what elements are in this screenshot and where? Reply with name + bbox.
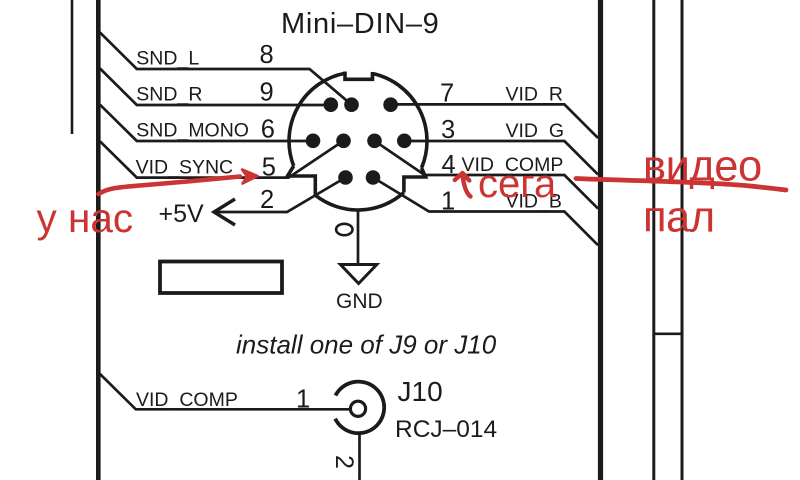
pin 5 dot [336, 134, 351, 149]
svg-text:у нас: у нас [37, 195, 134, 241]
pin 4 dot [367, 134, 382, 149]
svg-text:9: 9 [260, 78, 274, 106]
connector body right notch [404, 168, 426, 193]
pin number 3 [441, 116, 455, 144]
svg-text:J10: J10 [398, 376, 443, 407]
connector J10 inner circle [350, 401, 365, 416]
wire: right thin vertical line 1 [652, 0, 655, 480]
pin number 1 right [441, 188, 455, 216]
pin label VID_COMP (bottom) [136, 389, 238, 411]
wire J10 pin 2 down [358, 433, 361, 480]
pin 6 dot [306, 134, 321, 149]
red annotation curve with arrow to pin 5 [99, 170, 258, 195]
svg-text:install one of J9 or J10: install one of J9 or J10 [236, 330, 497, 360]
svg-text:GND: GND [336, 290, 383, 313]
red annotation text: видео [643, 143, 762, 191]
svg-text:VID_COMP: VID_COMP [136, 389, 238, 411]
pin label SND_R [136, 84, 202, 106]
component outline rectangle (left) [160, 262, 282, 294]
pin number 1 (J10) [296, 386, 310, 414]
svg-text:VID_SYNC: VID_SYNC [136, 157, 234, 179]
svg-text:7: 7 [440, 80, 454, 108]
reference designator J10 [398, 376, 443, 407]
connector body left notch [288, 166, 316, 195]
wire SND_L to pin 8 [100, 33, 352, 105]
wire SND_MONO to pin 6 [100, 105, 313, 141]
pin 3 dot [397, 134, 412, 149]
pin label VID_SYNC [136, 157, 234, 179]
svg-text:пал: пал [643, 194, 715, 242]
svg-text:RCJ–014: RCJ–014 [395, 416, 497, 443]
svg-text:сега: сега [478, 162, 557, 206]
wire VID_COMP to J10 pin 1 [100, 374, 352, 410]
pin label VID_COMP [462, 154, 564, 176]
pin number 5 [262, 154, 276, 182]
pin label SND_L [136, 48, 199, 70]
pin 1 dot [366, 170, 381, 185]
svg-text:6: 6 [261, 115, 275, 143]
label: connector title Mini-DIN-9 [281, 8, 440, 40]
pin number 9 [260, 78, 274, 106]
wire: right border vertical line [598, 0, 603, 480]
svg-text:+5V: +5V [159, 200, 205, 228]
svg-text:2: 2 [260, 186, 274, 214]
power label +5V [159, 200, 205, 228]
pin label VID_B [506, 191, 562, 213]
pin 9 dot [324, 97, 339, 112]
wire SND_R to pin 9 [100, 69, 331, 106]
svg-text:2: 2 [330, 455, 358, 469]
pin 2 dot [338, 170, 353, 185]
wire VID_COMP from pin 4 [375, 141, 599, 209]
red annotation arrow up at pin 4 [455, 173, 471, 197]
wire VID_R from pin 7 [391, 104, 598, 138]
svg-text:5: 5 [262, 154, 276, 182]
ground symbol GND [340, 265, 376, 284]
pin number 8 [260, 41, 274, 69]
svg-text:VID_R: VID_R [506, 83, 563, 105]
pin label VID_R [506, 83, 563, 105]
pin number 2 left [260, 186, 274, 214]
arrow head +5V [214, 199, 235, 225]
svg-text:4: 4 [442, 151, 456, 179]
svg-text:VID_G: VID_G [506, 120, 565, 142]
pin number 0 (rotated) [336, 224, 352, 235]
pin 8 dot [344, 97, 359, 112]
svg-text:Mini–DIN–9: Mini–DIN–9 [281, 8, 440, 40]
connector J? mini-DIN-9 body circle [289, 73, 427, 210]
wire: rung between right thin lines [654, 332, 682, 335]
svg-text:SND_R: SND_R [136, 84, 202, 106]
svg-text:3: 3 [441, 116, 455, 144]
wire: short vertical stub top-left [71, 0, 74, 134]
wire +5V to pin 2 [215, 178, 346, 213]
svg-text:1: 1 [296, 386, 310, 414]
pin label VID_G [506, 120, 565, 142]
wire VID_SYNC to pin 5 [100, 141, 344, 178]
wire: left border vertical line [96, 0, 101, 480]
wire VID_B from pin 1 [373, 178, 598, 246]
pin 7 dot [383, 97, 398, 112]
pin number 7 [440, 80, 454, 108]
red annotation text: у нас [37, 195, 134, 241]
svg-text:SND_L: SND_L [136, 48, 199, 70]
wire: right thin vertical line 2 [681, 0, 684, 480]
connector body top notch [345, 72, 373, 80]
svg-text:SND_MONO: SND_MONO [136, 120, 249, 142]
svg-text:1: 1 [441, 188, 455, 216]
label GND [336, 290, 383, 313]
red annotation text: пал [643, 194, 715, 242]
wire VID_G from pin 3 [404, 141, 598, 175]
note: install one of J9 or J10 [236, 330, 497, 360]
pin number 2 (J10, rotated) [330, 455, 358, 469]
pin number 4 [442, 151, 456, 179]
svg-text:8: 8 [260, 41, 274, 69]
pin number 6 [261, 115, 275, 143]
pin label SND_MONO [136, 120, 249, 142]
red annotation text: сега [478, 162, 557, 206]
wire pin 0 to GND [357, 210, 360, 264]
connector J10 outer ring [335, 382, 384, 434]
red annotation horizontal line [576, 179, 786, 191]
value label RCJ-014 [395, 416, 497, 443]
